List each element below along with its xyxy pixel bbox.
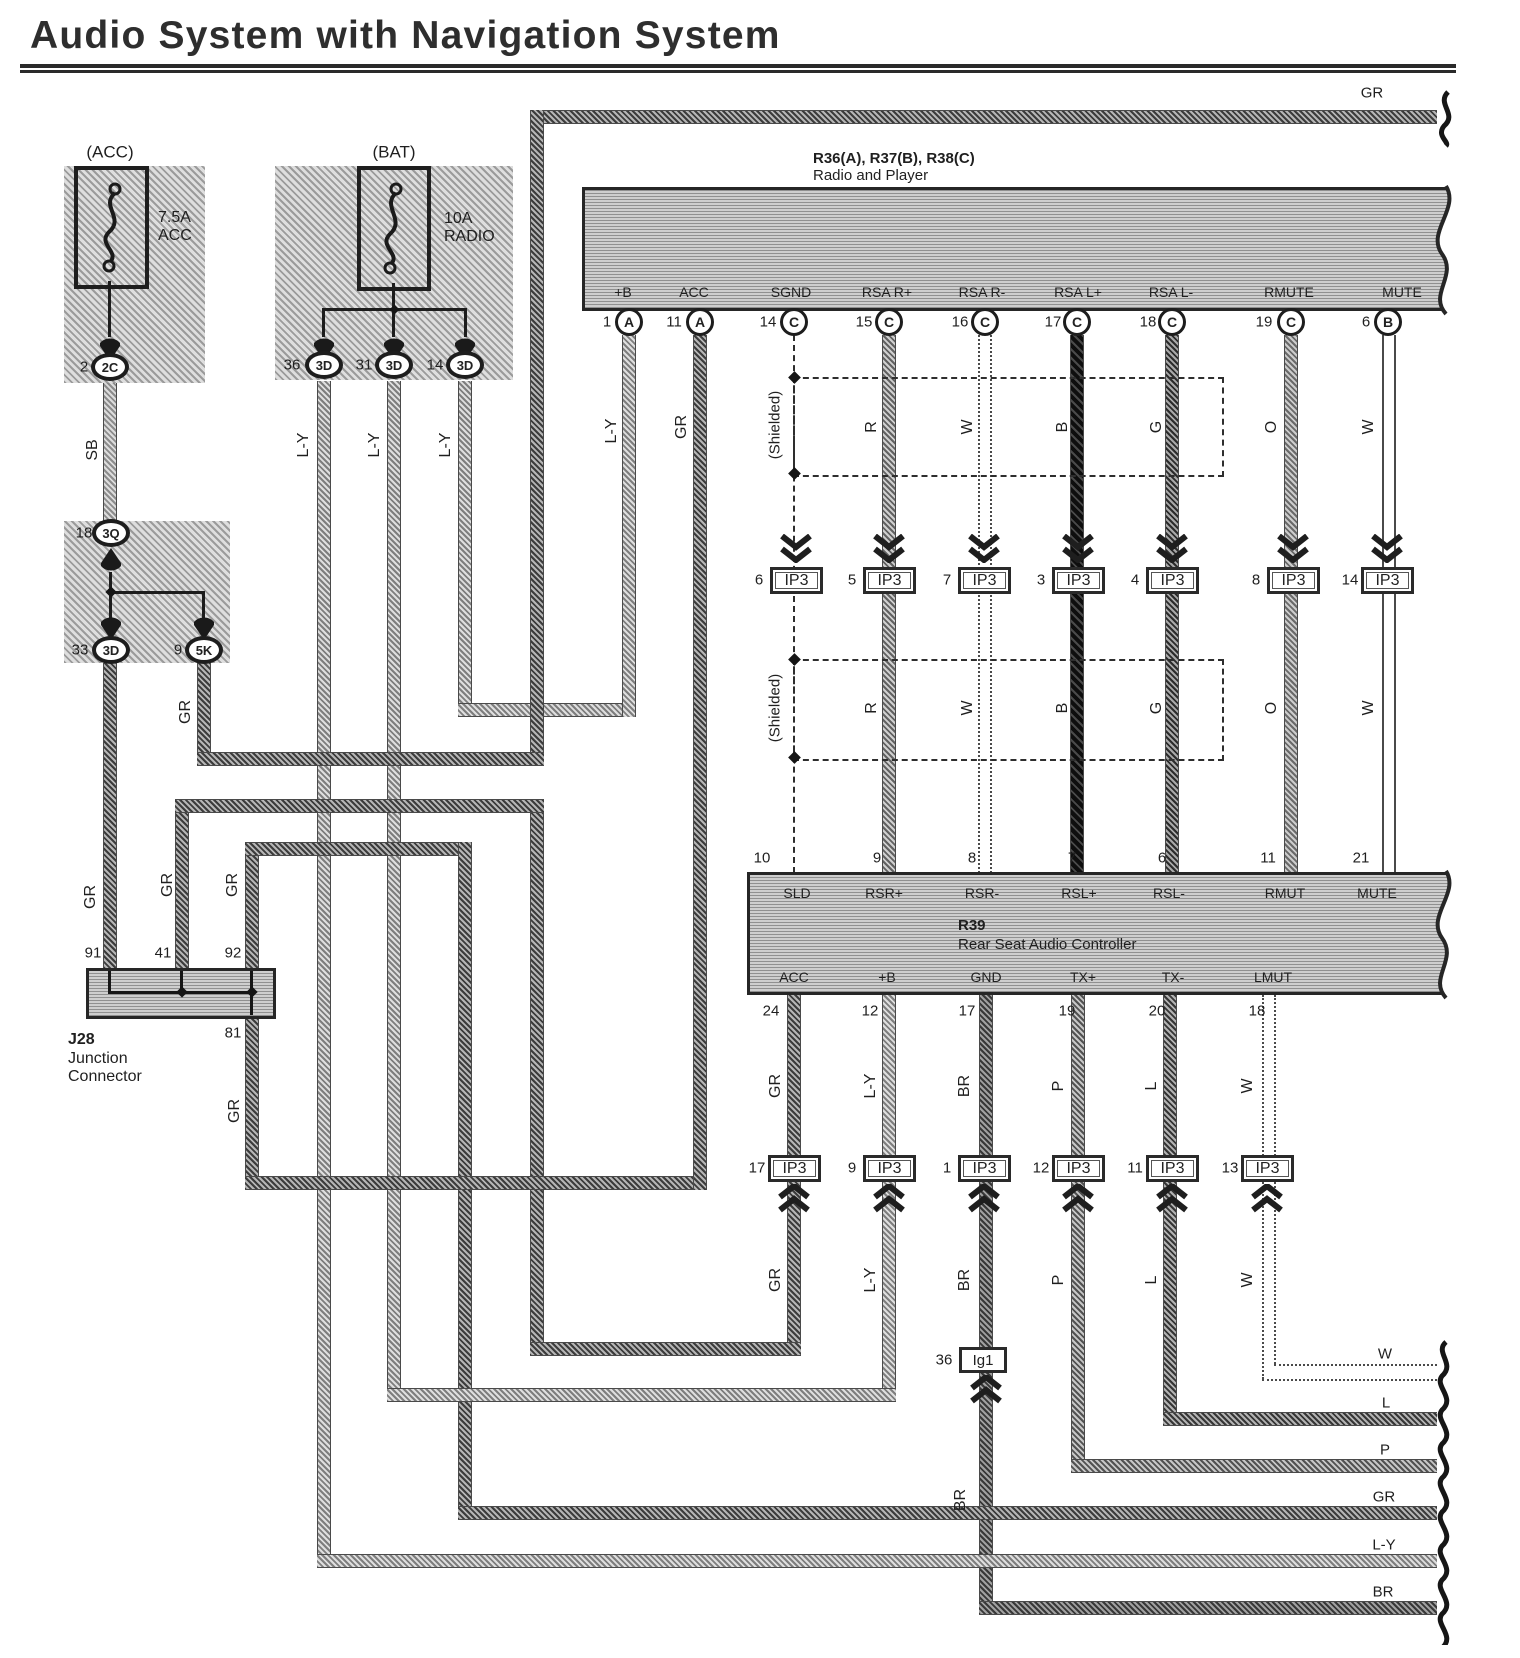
- arrow into connector 31: [383, 337, 405, 361]
- connector IP3 pin 3: [1052, 567, 1105, 594]
- arrow into connector 9: [193, 616, 215, 640]
- wire L wire (R39 TX- pin 20) (vertical): [1163, 995, 1177, 1426]
- junction node on BAT splitter: [390, 305, 400, 315]
- label Radio and Player: [813, 168, 928, 183]
- label 7.5A ACC: [158, 210, 191, 226]
- wire W wire left line (R39 LMUT) (thin vertical): [1262, 995, 1264, 1379]
- connector IP3 pin 13 (row2): [1241, 1155, 1294, 1182]
- label GR (off-page): [1373, 1490, 1396, 1505]
- label B at y708: [1055, 703, 1071, 714]
- shielded cable dashed box 1: [793, 377, 1224, 477]
- arrow into IP3 pin 6: [779, 534, 813, 563]
- radio pin label ACC: [679, 285, 709, 299]
- label G at y708: [1149, 702, 1165, 714]
- radio pin label RMUTE: [1264, 285, 1314, 299]
- label W (off-page): [1378, 1347, 1392, 1362]
- R39 bottom pin label GND: [970, 970, 1001, 984]
- pin number 31: [356, 358, 373, 373]
- arrow out of IP3 pin 13: [1250, 1184, 1284, 1213]
- shield drain node top 2: [788, 653, 801, 666]
- connector IP3 pin 1 (row2): [958, 1155, 1011, 1182]
- label O at y708: [1264, 702, 1280, 714]
- pin number 12 (IP3 row2): [1033, 1161, 1050, 1176]
- label L-Y (BAT14 wire): [438, 433, 454, 458]
- connector IP3 pin 12 (row2): [1052, 1155, 1105, 1182]
- wire L-Y wire (BAT 14 down) (vertical): [458, 381, 472, 717]
- pin number 33: [72, 643, 89, 658]
- pin number 4 (IP3 row1): [1131, 573, 1139, 588]
- wire BR wire (R39 GND pin 17) (vertical): [979, 995, 993, 1615]
- fuse block background (BAT): [275, 166, 513, 380]
- label BR (off-page): [1373, 1585, 1394, 1600]
- label G at y427: [1149, 421, 1165, 433]
- Radio box torn right edge: [1420, 184, 1472, 316]
- wire L-Y wire (BAT 31 down) (vertical): [387, 381, 401, 1402]
- wire G wire (radio RSA L-) (vertical): [1165, 335, 1179, 873]
- pin number 14: [427, 358, 444, 373]
- label BR below Ig1: [953, 1489, 969, 1511]
- label L-Y at y1280: [863, 1268, 879, 1293]
- junction block background (driver side J/B): [64, 521, 230, 663]
- connector 18 (3Q): [92, 519, 130, 547]
- connector 31 (3D): [375, 351, 413, 379]
- arrow out of IP3 pin 12: [1061, 1184, 1095, 1213]
- arrow out of IP3 pin 11: [1155, 1184, 1189, 1213]
- wire O wire (radio RMUTE) (vertical): [1284, 335, 1298, 873]
- arrow into connector 2: [99, 337, 121, 361]
- label GR at y1086: [768, 1074, 784, 1098]
- connector 33 (3D): [92, 636, 130, 664]
- label L-Y (BAT31 wire): [367, 433, 383, 458]
- pin number 6 (IP3 row1): [755, 573, 763, 588]
- radio pin 11 connector (A): [686, 308, 714, 336]
- label L at y1086: [1144, 1082, 1160, 1091]
- off-page break squiggle (bottom right wires): [1430, 1340, 1460, 1645]
- wire W wire lower line (LMUT to right) (thin horizontal): [1262, 1379, 1437, 1381]
- R39 top pin label RSR+: [865, 886, 903, 900]
- shield drain node bottom 1: [788, 467, 801, 480]
- J28 junction connector box: [86, 968, 276, 1019]
- wire W wire upper line (LMUT to right) (thin horizontal): [1274, 1364, 1437, 1366]
- R39 top pin label SLD: [783, 886, 810, 900]
- R39 bottom pin number 19: [1059, 1004, 1076, 1019]
- radio pin 16 connector (C): [971, 308, 999, 336]
- shield drain node bottom 2: [788, 751, 801, 764]
- connector 14 (3D): [446, 351, 484, 379]
- J28 internal bus: [108, 991, 253, 994]
- fuse F2 element symbol: [373, 180, 413, 282]
- wire B wire (radio RSA L+) (vertical): [1070, 335, 1084, 873]
- label GR (J28-41 wire): [160, 873, 176, 897]
- R39 box torn right edge: [1420, 869, 1472, 1000]
- connector Ig1: [959, 1347, 1007, 1373]
- wire W wire left line (radio MUTE) (thin vertical): [1382, 335, 1384, 873]
- label W at y708: [1361, 700, 1377, 715]
- arrow into IP3 pin 4: [1155, 534, 1189, 563]
- connector IP3 pin 9 (row2): [863, 1155, 916, 1182]
- wire W wire right line (radio MUTE) (thin vertical): [1394, 335, 1396, 873]
- wire L-Y wire (BAT 36 down) (vertical): [317, 381, 331, 1568]
- pin number 13 (IP3 row2): [1222, 1161, 1239, 1176]
- radio pin 17 connector (C): [1063, 308, 1091, 336]
- pin number 11 (IP3 row2): [1127, 1161, 1143, 1176]
- R39 bottom pin number 12: [862, 1004, 879, 1019]
- wire P wire (TX+ to right) (horizontal): [1071, 1459, 1437, 1473]
- label W at y1086: [1240, 1078, 1256, 1093]
- connector IP3 pin 11 (row2): [1146, 1155, 1199, 1182]
- R39 top pin number 11: [1260, 851, 1276, 866]
- wire L-Y wire (BAT36 to right) (horizontal): [317, 1554, 1437, 1568]
- arrow out of IP3 pin 1: [967, 1184, 1001, 1213]
- label 10A RADIO: [444, 211, 472, 227]
- label BR at y1086: [957, 1075, 973, 1097]
- pin number 3 (IP3 row1): [1037, 573, 1045, 588]
- wire L wire (TX- to right) (horizontal): [1163, 1412, 1437, 1426]
- wire GR wire (R39 ACC pin 24) (vertical): [787, 995, 801, 1356]
- label Rear Seat Audio Controller: [958, 937, 1136, 952]
- wire L-Y wire (BAT 14 to radio +B) (horizontal): [458, 703, 636, 717]
- wire GR wire (J28 pin 92 link) (horizontal): [245, 842, 472, 856]
- wire GR main loop left lower segment (J28-41 to IP3 17) (vertical): [530, 799, 544, 1356]
- R39 top pin label RMUT: [1265, 886, 1305, 900]
- label L-Y (BAT36 wire): [296, 433, 312, 458]
- label GR (top wire): [1361, 86, 1384, 101]
- wire fuse ACC to arrow (thin): [108, 281, 111, 337]
- pin number 36: [284, 358, 301, 373]
- pin number 9: [174, 643, 182, 658]
- label L-Y (+B wire): [604, 419, 620, 444]
- wire L-Y wire (R39 +B pin 12) (vertical): [882, 995, 896, 1402]
- pin number 2: [80, 360, 88, 375]
- R39 top pin label MUTE: [1357, 886, 1397, 900]
- pin number 18: [76, 526, 93, 541]
- radio pin 14 connector (C): [780, 308, 808, 336]
- radio pin label RSA R+: [862, 285, 912, 299]
- connector IP3 pin 8: [1267, 567, 1320, 594]
- wire L-Y wire (radio pin 1 +B) (vertical): [622, 335, 636, 717]
- R39 top pin number 6: [1158, 851, 1166, 866]
- R39 top pin number 8: [968, 851, 976, 866]
- R39 top pin number 21: [1353, 851, 1370, 866]
- R39 bottom pin number 24: [763, 1004, 780, 1019]
- off-page break squiggle (top GR): [1432, 90, 1462, 148]
- label L (off-page): [1382, 1396, 1390, 1411]
- label R at y427: [864, 421, 880, 433]
- label B at y427: [1055, 422, 1071, 433]
- fuse F2 10A RADIO rectangle: [357, 166, 431, 291]
- wire L-Y wire (BAT31 to IP3 9 link) (horizontal): [387, 1388, 896, 1402]
- wire SLD shield drain wire (radio pin 14) (thin vertical): [793, 335, 795, 873]
- label L at y1280: [1144, 1276, 1160, 1285]
- junction block internal wire vertical: [109, 572, 112, 618]
- radio pin label RSA L-: [1149, 285, 1193, 299]
- label (ACC): [86, 144, 133, 161]
- R39 bottom pin number 18: [1249, 1004, 1266, 1019]
- wire GR main loop left upper segment (vertical): [530, 110, 544, 766]
- label GR (ACC wire): [674, 415, 690, 439]
- arrow into IP3 pin 8: [1276, 534, 1310, 563]
- wire W wire left line (radio RSA R-) (thin vertical): [978, 335, 980, 873]
- wire BAT splitter bus (thin): [323, 308, 467, 311]
- pin number 14 (IP3 row1): [1342, 573, 1359, 588]
- connector 2 (2C): [91, 353, 129, 381]
- connector 36 (3D): [305, 351, 343, 379]
- fuse block background (ACC): [64, 166, 205, 383]
- wire fuse RADIO to splitter (thin): [392, 283, 395, 310]
- label R36(A), R37(B), R38(C): [813, 151, 975, 166]
- R39 top pin number 7: [1068, 851, 1076, 866]
- J28 pin number 81: [225, 1026, 242, 1041]
- R39 bottom pin label TX-: [1162, 970, 1185, 984]
- component R39 Rear Seat Audio Controller box: [747, 872, 1461, 995]
- label L-Y at y1086: [863, 1074, 879, 1099]
- R39 bottom pin label TX+: [1070, 970, 1096, 984]
- arrow into IP3 pin 5: [872, 534, 906, 563]
- wire R wire (radio RSA R+) (vertical): [882, 335, 896, 873]
- label R39: [958, 918, 986, 933]
- wire GR wire (J28 pin 92 upper) (vertical): [245, 849, 259, 968]
- wire SB wire (fuse ACC to junction 18) (vertical): [103, 381, 117, 521]
- R39 top pin label RSL+: [1061, 886, 1096, 900]
- radio pin label MUTE: [1382, 285, 1422, 299]
- label SB: [85, 439, 101, 460]
- wire GR wire (radio pin 11 ACC) (vertical): [693, 335, 707, 1190]
- wire GR wire (J28 pin 81 down) (vertical): [245, 1019, 259, 1183]
- connector IP3 pin 17 (row2): [768, 1155, 821, 1182]
- label W at y427: [1361, 419, 1377, 434]
- pin number 1 (IP3 row2): [943, 1161, 951, 1176]
- pin number 7 (IP3 row1): [943, 573, 951, 588]
- wire GR wire (main loop to IP3 17 link) (horizontal): [530, 1342, 801, 1356]
- label (Shielded) 1: [768, 391, 783, 459]
- junction block internal bus horizontal: [109, 591, 205, 594]
- pin number 17 (IP3 row2): [749, 1161, 766, 1176]
- radio pin 18 connector (C): [1158, 308, 1186, 336]
- radio pin 6 connector (B): [1374, 308, 1402, 336]
- radio pin 1 connector (A): [615, 308, 643, 336]
- wire GR wire (J28 pin 41 link) (horizontal): [175, 799, 544, 813]
- R39 top pin label RSL-: [1153, 886, 1185, 900]
- arrow into connector 36: [313, 337, 335, 361]
- R39 top pin number 10: [754, 851, 771, 866]
- pin number 5 (IP3 row1): [848, 573, 856, 588]
- title underline: [20, 64, 1456, 68]
- wire GR wire (connector 33 to J28 pin 91) (vertical): [103, 663, 117, 968]
- R39 top pin label RSR-: [965, 886, 999, 900]
- radio pin label RSA L+: [1054, 285, 1102, 299]
- arrow out of Ig1: [969, 1375, 1003, 1404]
- arrow into IP3 pin 7: [967, 534, 1001, 563]
- R39 bottom pin label +B: [878, 970, 896, 984]
- label (Shielded) 2: [768, 674, 783, 742]
- label R at y708: [864, 702, 880, 714]
- label J28 Junction Connector: [68, 1032, 95, 1048]
- label GR (J28-92 wire): [225, 873, 241, 897]
- J28 pin number 92: [225, 946, 242, 961]
- label P at y1086: [1051, 1081, 1067, 1092]
- J28 pin number 41: [155, 946, 172, 961]
- label W at y1280: [1240, 1272, 1256, 1287]
- wire GR wire (connector 9 down) (vertical): [197, 663, 211, 759]
- wire GR wire (connector 9 to main loop) (horizontal): [197, 752, 544, 766]
- connector IP3 pin 14: [1361, 567, 1414, 594]
- pin number 9 (IP3 row2): [848, 1161, 856, 1176]
- J28 bus node 41: [176, 986, 187, 997]
- label GR (conn 33 wire): [83, 885, 99, 909]
- J28 pin number 91: [85, 946, 102, 961]
- connector IP3 pin 4: [1146, 567, 1199, 594]
- label (BAT): [372, 144, 415, 161]
- junction node dot: [105, 586, 116, 597]
- R39 bottom pin number 20: [1149, 1004, 1166, 1019]
- label W at y427: [960, 419, 976, 434]
- pin number 36 (Ig1): [936, 1353, 953, 1368]
- radio pin 15 connector (C): [875, 308, 903, 336]
- wire GR wire (J28 pin 81 to radio ACC) (horizontal): [245, 1176, 707, 1190]
- R39 bottom pin label ACC: [779, 970, 809, 984]
- label P (off-page): [1380, 1443, 1390, 1458]
- radio pin label RSA R-: [959, 285, 1006, 299]
- R39 top pin number 9: [873, 851, 881, 866]
- arrow into IP3 pin 14: [1370, 534, 1404, 563]
- arrow up below connector 18: [100, 548, 122, 572]
- wire P wire (R39 TX+ pin 19) (vertical): [1071, 995, 1085, 1473]
- shield drain node top 1: [788, 371, 801, 384]
- label GR (conn 9 wire): [178, 700, 194, 724]
- label P at y1280: [1051, 1275, 1067, 1286]
- arrow out of IP3 pin 17: [777, 1184, 811, 1213]
- wire GR wire (J28 pin 92 lower long) (vertical): [458, 842, 472, 1520]
- fuse F1 element symbol: [92, 180, 132, 280]
- shielded cable dashed box 2: [793, 659, 1224, 761]
- wire GR main loop top (horizontal): [537, 110, 1437, 124]
- wire W wire right line (radio RSA R-) (thin vertical): [990, 335, 992, 873]
- connector IP3 pin 5: [863, 567, 916, 594]
- label O at y427: [1264, 421, 1280, 433]
- wire GR wire (J28-92 to right) (horizontal): [458, 1506, 1437, 1520]
- arrow out of IP3 pin 9: [872, 1184, 906, 1213]
- connector IP3 pin 7: [958, 567, 1011, 594]
- connector IP3 pin 6: [770, 567, 823, 594]
- R39 bottom pin label LMUT: [1254, 970, 1292, 984]
- arrow into IP3 pin 3: [1061, 534, 1095, 563]
- arrow into connector 33: [100, 616, 122, 640]
- wire W wire right line (R39 LMUT) (thin vertical): [1274, 995, 1276, 1364]
- pin number 8 (IP3 row1): [1252, 573, 1260, 588]
- radio pin 19 connector (C): [1277, 308, 1305, 336]
- label L-Y (off-page): [1372, 1538, 1395, 1553]
- title: Audio System with Navigation System: [30, 16, 781, 55]
- arrow into connector 14: [454, 337, 476, 361]
- label W at y708: [960, 700, 976, 715]
- label GR at y1280: [768, 1268, 784, 1292]
- radio pin label +B: [614, 285, 632, 299]
- connector 9 (5K): [185, 636, 223, 664]
- J28 bus node 92: [246, 986, 257, 997]
- wire GR wire (J28 pin 41 up) (vertical): [175, 806, 189, 968]
- label GR (J28-81 wire): [227, 1099, 243, 1123]
- fuse F1 7.5A ACC rectangle: [74, 166, 149, 289]
- R39 bottom pin number 17: [959, 1004, 976, 1019]
- label BR at y1280: [957, 1269, 973, 1291]
- component R36/R37/R38 Radio and Player box: [582, 187, 1461, 311]
- radio pin label SGND: [771, 285, 811, 299]
- wire BR wire (GND to right) (horizontal): [979, 1601, 1437, 1615]
